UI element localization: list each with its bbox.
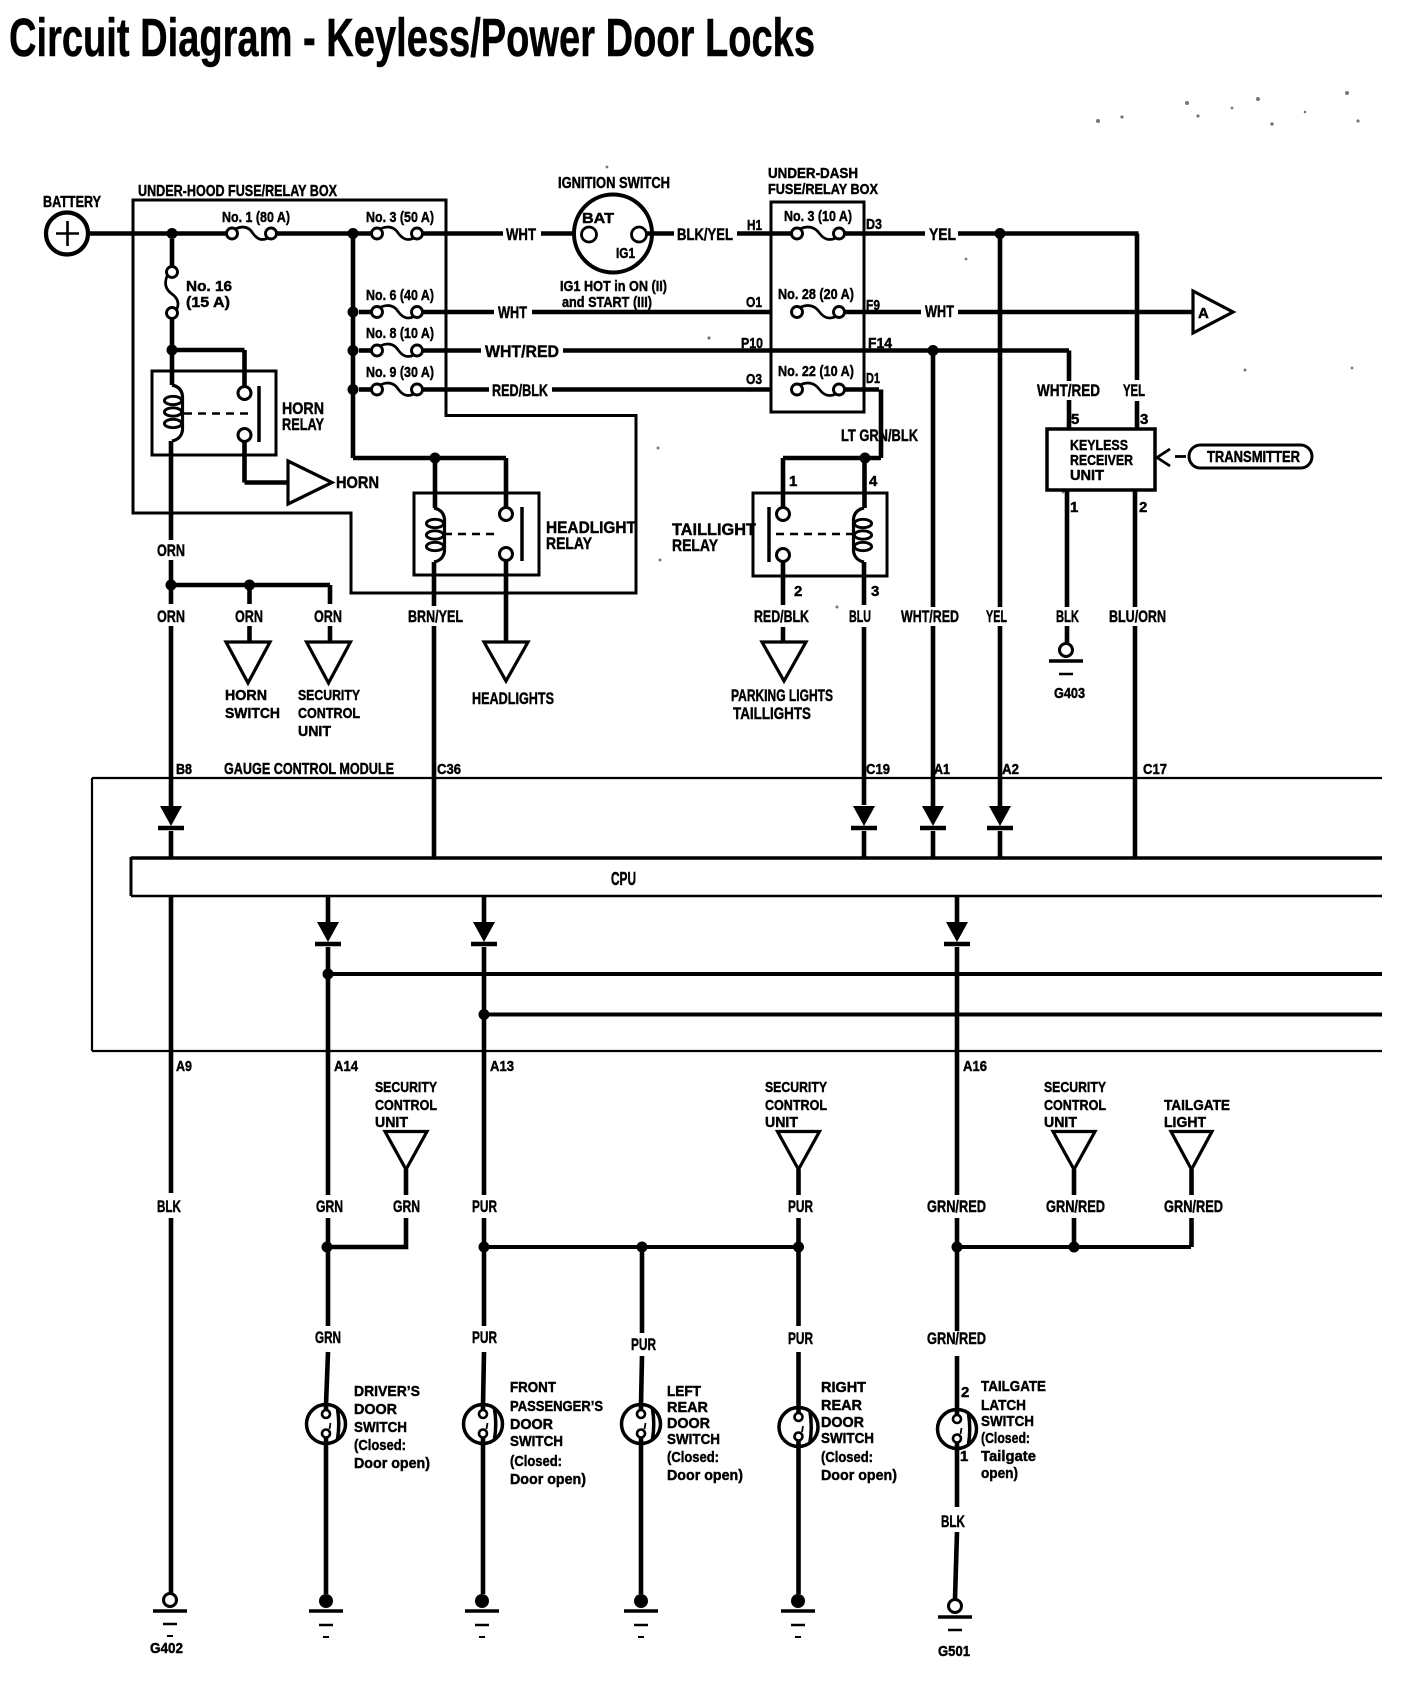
wire WHT row to under-dash — [423, 310, 494, 315]
svg-text:IGNITION SWITCH: IGNITION SWITCH — [558, 175, 670, 192]
taillight relay contacts — [777, 508, 790, 521]
headlight relay contacts — [500, 508, 513, 521]
svg-text:HORN: HORN — [336, 473, 379, 492]
svg-text:No. 22 (10 A): No. 22 (10 A) — [778, 363, 854, 380]
wire A1 vertical — [931, 351, 936, 608]
junction horn relay feed — [167, 345, 178, 356]
svg-text:WHT/RED: WHT/RED — [901, 607, 959, 626]
svg-text:DOOR: DOOR — [510, 1416, 553, 1433]
junction ORN mid — [244, 580, 255, 591]
svg-text:No. 3 (50 A): No. 3 (50 A) — [366, 209, 434, 226]
wire D3 to YEL — [845, 231, 925, 236]
wire tailgate switch to gnd — [955, 1448, 960, 1507]
wire front switch to gnd — [481, 1443, 486, 1594]
wire horn contact to horn — [242, 442, 247, 483]
wire A2 to CPU — [998, 831, 1003, 857]
wire A14 down — [326, 974, 331, 1195]
wire RED/BLK row — [423, 387, 489, 392]
wire taillight coil down BLU — [862, 562, 867, 605]
svg-text:1: 1 — [1070, 499, 1078, 516]
svg-text:2: 2 — [961, 1384, 969, 1401]
svg-text:UNIT: UNIT — [375, 1114, 408, 1131]
wire keyless pin5 drop — [1067, 351, 1072, 382]
svg-text:LATCH: LATCH — [981, 1397, 1026, 1414]
fuse No. 1 (80 A) — [227, 228, 238, 239]
svg-text:Tailgate: Tailgate — [981, 1448, 1036, 1465]
transmitter pill — [1189, 445, 1312, 468]
svg-text:No. 16: No. 16 — [186, 278, 232, 295]
wire GRN/RED down tailgate — [955, 1247, 960, 1331]
wire keyless pin1 gnd — [1065, 490, 1070, 607]
wire A9 down — [169, 896, 174, 1193]
svg-text:H1: H1 — [747, 217, 762, 234]
horn switch connector — [226, 642, 270, 683]
svg-text:4: 4 — [869, 473, 878, 490]
wire headlight relay feed — [353, 456, 506, 461]
svg-text:ORN: ORN — [235, 607, 263, 626]
diode B8 — [160, 806, 182, 826]
wire F14 out — [864, 348, 1069, 353]
svg-text:BRN/YEL: BRN/YEL — [408, 607, 463, 626]
svg-text:CONTROL: CONTROL — [1044, 1097, 1106, 1114]
svg-text:YEL: YEL — [986, 607, 1007, 626]
svg-text:DOOR: DOOR — [821, 1414, 864, 1431]
svg-text:GRN: GRN — [315, 1328, 341, 1347]
fuse No. 28 (20 A) — [792, 307, 803, 318]
svg-text:C36: C36 — [437, 761, 461, 778]
wire F9 out — [845, 310, 921, 315]
wire No.6 row — [359, 310, 371, 315]
junction GRN/RED mid — [1069, 1242, 1080, 1253]
wire A16 down — [955, 947, 960, 1195]
svg-text:FRONT: FRONT — [510, 1379, 556, 1396]
svg-text:SWITCH: SWITCH — [510, 1433, 563, 1450]
svg-text:GRN/RED: GRN/RED — [1046, 1197, 1105, 1216]
CPU box — [131, 856, 1382, 859]
svg-text:G501: G501 — [938, 1643, 970, 1660]
svg-text:IG1: IG1 — [616, 245, 635, 262]
wire driver switch to gnd — [324, 1443, 329, 1594]
svg-text:D3: D3 — [866, 216, 882, 233]
svg-text:Circuit Diagram - Keyless/Powe: Circuit Diagram - Keyless/Power Door Loc… — [9, 8, 815, 68]
svg-text:BATTERY: BATTERY — [43, 194, 101, 211]
svg-text:SWITCH: SWITCH — [981, 1413, 1034, 1430]
fuse No. 6 (40 A) — [372, 307, 383, 318]
junction No.6 tap — [348, 307, 359, 318]
svg-text:ORN: ORN — [157, 541, 185, 560]
wire A16 from CPU — [955, 896, 960, 922]
diode A1 — [922, 806, 944, 826]
terminal BAT — [582, 227, 597, 242]
svg-text:(15 A): (15 A) — [186, 294, 230, 311]
svg-text:WHT/RED: WHT/RED — [485, 342, 559, 361]
svg-text:RELAY: RELAY — [282, 415, 324, 434]
svg-text:D1: D1 — [866, 370, 880, 387]
svg-text:BLK: BLK — [1056, 607, 1079, 626]
terminal IG1 — [632, 227, 647, 242]
wire No.9 row — [359, 387, 371, 392]
wire security3 drop — [796, 1170, 801, 1196]
svg-text:(Closed:: (Closed: — [667, 1449, 719, 1466]
svg-text:HORN: HORN — [225, 687, 267, 704]
svg-text:BAT: BAT — [582, 210, 614, 227]
front passenger door switch — [464, 1405, 503, 1444]
svg-text:IG1 HOT in ON (II): IG1 HOT in ON (II) — [560, 278, 667, 295]
security control unit connector 3 — [778, 1132, 820, 1170]
wire ORN drop security — [328, 585, 333, 604]
svg-text:SWITCH: SWITCH — [821, 1430, 874, 1447]
GRN/RED bus — [957, 1245, 1191, 1249]
svg-text:GRN/RED: GRN/RED — [1164, 1197, 1223, 1216]
under-dash fuse/relay box — [771, 202, 864, 412]
wire keyless pin2 down — [1133, 490, 1138, 607]
svg-text:No. 6 (40 A): No. 6 (40 A) — [366, 287, 434, 304]
keyless receiver unit box — [1047, 429, 1155, 490]
svg-text:SWITCH: SWITCH — [354, 1419, 407, 1436]
junction battery feed — [167, 228, 178, 239]
wire PUR drop left rear — [640, 1247, 645, 1333]
diode A2 — [989, 806, 1011, 826]
connector arrow A — [1193, 291, 1233, 333]
svg-text:WHT: WHT — [925, 302, 954, 321]
ground G402 — [164, 1594, 177, 1607]
fuse No. 9 (30 A) — [372, 384, 383, 395]
svg-text:A13: A13 — [490, 1058, 514, 1075]
tailgate latch switch — [938, 1410, 977, 1449]
svg-text:CONTROL: CONTROL — [765, 1097, 827, 1114]
wire D1 out — [845, 387, 879, 392]
svg-text:DOOR: DOOR — [667, 1415, 710, 1432]
svg-text:YEL: YEL — [1123, 381, 1145, 400]
junction GRN/RED — [952, 1242, 963, 1253]
svg-text:LIGHT: LIGHT — [1164, 1114, 1206, 1131]
svg-text:A16: A16 — [963, 1058, 987, 1075]
junction YEL — [995, 228, 1006, 239]
ground driver — [319, 1594, 333, 1608]
svg-text:REAR: REAR — [667, 1399, 708, 1416]
svg-text:SECURITY: SECURITY — [298, 687, 360, 704]
svg-text:YEL: YEL — [929, 225, 956, 244]
wire PUR down A13 — [482, 1247, 487, 1326]
wire B8 entry — [169, 778, 174, 806]
ground G403 — [1060, 644, 1073, 657]
headlight relay box — [414, 493, 539, 575]
svg-text:No. 8 (10 A): No. 8 (10 A) — [366, 325, 434, 342]
wire headlight coil down BRN/YEL — [432, 562, 437, 606]
svg-text:1: 1 — [960, 1448, 968, 1465]
svg-text:3: 3 — [1140, 411, 1148, 428]
wire security2 drop — [404, 1170, 409, 1196]
wire C19 to CPU — [862, 831, 867, 857]
wire taillight pin4 drop — [862, 458, 867, 508]
svg-text:BLK: BLK — [157, 1197, 181, 1216]
security control unit connector 2 — [385, 1132, 427, 1170]
svg-text:UNIT: UNIT — [765, 1114, 798, 1131]
svg-text:Door open): Door open) — [510, 1471, 586, 1488]
taillight relay dashed link — [776, 533, 853, 536]
diode A14 — [317, 922, 339, 942]
svg-text:LT GRN/BLK: LT GRN/BLK — [841, 426, 919, 445]
svg-text:(Closed:: (Closed: — [510, 1453, 562, 1470]
wire headlight contact drop — [504, 458, 509, 507]
wire A2 vertical — [998, 234, 1003, 608]
headlights connector — [484, 642, 528, 681]
junction A14 bus — [323, 969, 334, 980]
junction PUR bus — [479, 1242, 490, 1253]
svg-text:WHT: WHT — [506, 225, 536, 244]
svg-text:5: 5 — [1071, 411, 1079, 428]
svg-text:GRN/RED: GRN/RED — [927, 1329, 986, 1348]
diode C19 — [853, 806, 875, 826]
svg-text:CONTROL: CONTROL — [298, 705, 360, 722]
under-hood fuse/relay box — [133, 200, 636, 593]
svg-text:HEADLIGHTS: HEADLIGHTS — [472, 689, 554, 708]
junction PUR mid — [637, 1242, 648, 1253]
taillight relay coil — [854, 508, 865, 562]
svg-text:DRIVER’S: DRIVER’S — [354, 1383, 420, 1400]
svg-text:WHT: WHT — [498, 303, 527, 322]
svg-text:BLU/ORN: BLU/ORN — [1109, 607, 1166, 626]
PUR bus — [484, 1245, 799, 1249]
wire tailgate light drop — [1189, 1170, 1194, 1196]
svg-text:(Closed:: (Closed: — [981, 1430, 1030, 1447]
svg-text:P10: P10 — [741, 335, 763, 352]
ground G501 — [949, 1600, 962, 1613]
svg-text:SECURITY: SECURITY — [765, 1079, 827, 1096]
wire PUR down right rear — [796, 1247, 801, 1326]
fuse No. 8 (10 A) — [372, 345, 383, 356]
svg-text:RED/BLK: RED/BLK — [754, 607, 810, 626]
junction PUR right — [793, 1242, 804, 1253]
bus line 1 — [328, 972, 1382, 976]
junction headlight feed — [430, 453, 441, 464]
junction GRN — [322, 1242, 333, 1253]
wire headlight coil drop — [433, 458, 438, 508]
security control unit connector 1 — [307, 642, 351, 683]
diode A13 — [473, 922, 495, 942]
wire headlight contact down — [504, 561, 509, 645]
svg-text:Door open): Door open) — [821, 1467, 897, 1484]
svg-text:PUR: PUR — [472, 1197, 497, 1216]
wire No.8 row — [359, 348, 371, 353]
svg-text:Door open): Door open) — [667, 1467, 743, 1484]
svg-text:TRANSMITTER: TRANSMITTER — [1207, 449, 1300, 466]
svg-text:TAILGATE: TAILGATE — [981, 1378, 1046, 1395]
wire fuse bus vertical — [351, 234, 356, 459]
wire battery branch — [170, 239, 175, 266]
svg-text:A2: A2 — [1002, 761, 1019, 778]
svg-text:WHT/RED: WHT/RED — [1037, 381, 1100, 400]
svg-text:UNDER-HOOD FUSE/RELAY BOX: UNDER-HOOD FUSE/RELAY BOX — [138, 183, 337, 200]
svg-text:G402: G402 — [150, 1640, 183, 1657]
svg-text:PUR: PUR — [472, 1328, 497, 1347]
wire taillight pin1 drop — [781, 458, 786, 507]
svg-text:LEFT: LEFT — [667, 1383, 701, 1400]
svg-text:UNIT: UNIT — [298, 723, 331, 740]
svg-text:PUR: PUR — [631, 1335, 656, 1354]
svg-text:A1: A1 — [934, 761, 950, 778]
wire GRN down — [326, 1247, 331, 1326]
svg-text:UNDER-DASH: UNDER-DASH — [768, 165, 858, 182]
ignition switch — [574, 195, 652, 273]
security control unit connector 4 — [1053, 1132, 1095, 1170]
svg-text:No. 1 (80 A): No. 1 (80 A) — [222, 209, 290, 226]
headlight relay dashed link — [444, 533, 497, 536]
svg-text:BLK: BLK — [941, 1512, 965, 1531]
svg-text:GRN: GRN — [316, 1197, 343, 1216]
svg-text:FUSE/RELAY BOX: FUSE/RELAY BOX — [768, 181, 878, 198]
svg-text:UNIT: UNIT — [1070, 467, 1104, 484]
wire B8 to CPU — [169, 831, 174, 857]
right rear door switch — [779, 1408, 818, 1447]
wire left rear to gnd — [639, 1443, 644, 1594]
junction taillight coil feed — [860, 453, 871, 464]
svg-text:SWITCH: SWITCH — [225, 705, 280, 722]
wire ORN bus — [171, 583, 330, 588]
wire IG1 out — [646, 231, 674, 236]
fuse No. 22 (10 A) — [792, 384, 803, 395]
svg-text:REAR: REAR — [821, 1397, 862, 1414]
wire A1 to CPU — [931, 831, 936, 857]
svg-text:TAILGATE: TAILGATE — [1164, 1097, 1230, 1114]
svg-text:BLK/YEL: BLK/YEL — [677, 225, 733, 244]
svg-text:2: 2 — [1139, 499, 1147, 516]
svg-text:O3: O3 — [746, 371, 762, 388]
ground left rear — [634, 1594, 648, 1608]
wire ORN left down — [169, 626, 174, 778]
svg-text:GAUGE CONTROL MODULE: GAUGE CONTROL MODULE — [224, 761, 394, 778]
wire taillight pin2 down — [781, 562, 786, 606]
svg-text:PUR: PUR — [788, 1197, 813, 1216]
horn symbol — [288, 461, 332, 504]
svg-text:3: 3 — [871, 583, 879, 600]
svg-text:A14: A14 — [334, 1058, 359, 1075]
wire A13 to bus — [482, 947, 487, 1015]
svg-text:GRN/RED: GRN/RED — [927, 1197, 986, 1216]
wire jog to horn contact — [172, 348, 245, 353]
svg-text:Door open): Door open) — [354, 1455, 430, 1472]
wire fuse16 to horn relay — [170, 319, 175, 385]
svg-text:SECURITY: SECURITY — [375, 1079, 437, 1096]
fuse No. 3 (50 A) — [372, 228, 383, 239]
battery — [46, 213, 88, 255]
svg-text:RED/BLK: RED/BLK — [492, 381, 549, 400]
horn relay coil — [172, 385, 183, 441]
svg-text:SWITCH: SWITCH — [667, 1431, 720, 1448]
svg-text:PARKING LIGHTS: PARKING LIGHTS — [731, 686, 833, 705]
fuse No. 16 (15 A) — [167, 267, 178, 278]
svg-text:A: A — [1198, 305, 1209, 322]
svg-text:CPU: CPU — [611, 869, 636, 889]
svg-text:C17: C17 — [1143, 761, 1167, 778]
svg-text:No. 28 (20 A): No. 28 (20 A) — [778, 286, 854, 303]
svg-text:RIGHT: RIGHT — [821, 1379, 866, 1396]
junction WHT/RED — [928, 345, 939, 356]
wire A13 from CPU — [482, 896, 487, 922]
ground right rear — [791, 1594, 805, 1608]
gauge control module box — [92, 777, 1382, 779]
wire ORN drop horn switch — [247, 585, 252, 604]
junction No.9 tap — [348, 384, 359, 395]
svg-text:SECURITY: SECURITY — [1044, 1079, 1106, 1096]
svg-text:B8: B8 — [176, 761, 192, 778]
svg-text:PASSENGER’S: PASSENGER’S — [510, 1398, 603, 1415]
wire P10 to F14 — [771, 348, 864, 353]
wire fuse3 to ignition — [423, 231, 503, 236]
taillight relay box — [753, 493, 887, 576]
junction main bus — [348, 228, 359, 239]
junction A13 bus — [479, 1009, 490, 1020]
wire A14 to bus — [326, 947, 331, 974]
svg-text:G403: G403 — [1054, 685, 1085, 702]
svg-text:O1: O1 — [746, 294, 762, 311]
wire horn relay coil down — [169, 441, 174, 540]
svg-text:1: 1 — [789, 473, 797, 490]
driver's door switch — [307, 1405, 346, 1444]
bus line 2 — [484, 1013, 1382, 1017]
scan specks — [606, 91, 1360, 609]
svg-text:open): open) — [981, 1465, 1018, 1482]
svg-text:2: 2 — [794, 583, 802, 600]
svg-text:C19: C19 — [866, 761, 890, 778]
horn relay contacts — [238, 387, 251, 400]
junction No.8 tap — [348, 345, 359, 356]
svg-text:and START (III): and START (III) — [562, 294, 652, 311]
svg-text:A9: A9 — [176, 1058, 192, 1075]
wire right rear to gnd — [796, 1446, 801, 1594]
svg-text:(Closed:: (Closed: — [821, 1449, 873, 1466]
wire H1 to fuse — [771, 231, 791, 236]
svg-text:TAILLIGHTS: TAILLIGHTS — [733, 704, 811, 723]
transmitter arrow — [1157, 449, 1170, 466]
diode A16 — [946, 922, 968, 942]
svg-text:ORN: ORN — [157, 607, 185, 626]
wire A13 down — [482, 1015, 487, 1196]
wire battery to fuse box — [88, 231, 226, 236]
svg-text:BLU: BLU — [849, 607, 871, 626]
svg-text:(Closed:: (Closed: — [354, 1437, 406, 1454]
svg-text:CONTROL: CONTROL — [375, 1097, 437, 1114]
wire WHT/RED row — [423, 348, 481, 353]
svg-text:RELAY: RELAY — [546, 534, 593, 553]
parking lights connector — [762, 642, 806, 681]
svg-text:RELAY: RELAY — [672, 536, 719, 555]
svg-text:No. 9 (30 A): No. 9 (30 A) — [366, 364, 434, 381]
horn relay box — [152, 371, 276, 455]
ground front — [475, 1594, 489, 1608]
tailgate light connector — [1171, 1132, 1212, 1170]
wire security4 drop — [1072, 1170, 1077, 1196]
svg-text:PUR: PUR — [788, 1329, 813, 1348]
svg-text:UNIT: UNIT — [1044, 1114, 1077, 1131]
wire fuse1 to fuse3 — [277, 231, 371, 236]
svg-text:No. 3 (10 A): No. 3 (10 A) — [784, 208, 852, 225]
wire YEL drop to keyless — [1135, 234, 1140, 381]
headlight relay coil — [434, 508, 445, 562]
horn relay dashed link — [184, 412, 248, 415]
wire A14 from CPU — [326, 896, 331, 922]
wire YEL bus — [958, 231, 1139, 236]
junction ORN left — [166, 580, 177, 591]
svg-text:DOOR: DOOR — [354, 1401, 397, 1418]
fuse No. 3 (10 A) — [792, 228, 803, 239]
left rear door switch — [622, 1405, 661, 1444]
svg-text:GRN: GRN — [393, 1197, 420, 1216]
svg-text:ORN: ORN — [314, 607, 342, 626]
